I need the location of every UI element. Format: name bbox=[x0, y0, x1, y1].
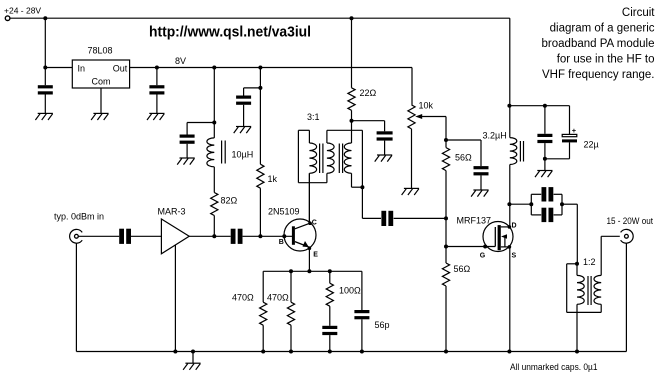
svg-text:10µH: 10µH bbox=[232, 150, 254, 160]
svg-text:22µ: 22µ bbox=[584, 140, 599, 150]
svg-text:1k: 1k bbox=[268, 174, 278, 184]
svg-text:D: D bbox=[512, 223, 517, 230]
svg-text:8V: 8V bbox=[175, 56, 186, 66]
svg-text:Com: Com bbox=[92, 77, 111, 87]
svg-text:15 - 20W out: 15 - 20W out bbox=[607, 216, 654, 226]
svg-text:3:1: 3:1 bbox=[307, 112, 320, 122]
svg-text:MRF137: MRF137 bbox=[457, 216, 492, 226]
svg-text:22Ω: 22Ω bbox=[360, 88, 377, 98]
svg-text:470Ω: 470Ω bbox=[267, 293, 289, 303]
svg-text:All unmarked caps. 0µ1: All unmarked caps. 0µ1 bbox=[510, 362, 598, 372]
svg-text:470Ω: 470Ω bbox=[232, 293, 254, 303]
svg-text:typ. 0dBm in: typ. 0dBm in bbox=[54, 212, 104, 222]
svg-text:In: In bbox=[78, 64, 86, 74]
svg-text:78L08: 78L08 bbox=[88, 46, 113, 56]
svg-text:Out: Out bbox=[113, 64, 128, 74]
svg-text:56p: 56p bbox=[375, 320, 390, 330]
svg-text:82Ω: 82Ω bbox=[221, 195, 238, 205]
svg-text:56Ω: 56Ω bbox=[455, 153, 472, 163]
svg-text:B: B bbox=[279, 239, 284, 246]
svg-text:+24 - 28V: +24 - 28V bbox=[4, 6, 41, 16]
svg-text:http://www.qsl.net/va3iul: http://www.qsl.net/va3iul bbox=[149, 25, 311, 41]
svg-text:E: E bbox=[313, 252, 318, 259]
svg-text:broadband PA module: broadband PA module bbox=[542, 38, 655, 50]
svg-text:C: C bbox=[312, 219, 317, 226]
svg-text:for use in the HF to: for use in the HF to bbox=[557, 54, 655, 66]
svg-text:MAR-3: MAR-3 bbox=[158, 206, 186, 216]
svg-text:G: G bbox=[480, 253, 486, 260]
svg-text:10k: 10k bbox=[419, 101, 434, 111]
svg-text:Circuit: Circuit bbox=[622, 7, 655, 19]
svg-text:3.2µH: 3.2µH bbox=[483, 130, 507, 140]
svg-text:diagram of a generic: diagram of a generic bbox=[550, 23, 655, 35]
svg-text:S: S bbox=[512, 253, 517, 260]
svg-text:100Ω: 100Ω bbox=[339, 285, 361, 295]
svg-text:VHF frequency range.: VHF frequency range. bbox=[542, 69, 655, 81]
svg-text:2N5109: 2N5109 bbox=[268, 206, 300, 216]
svg-text:1:2: 1:2 bbox=[583, 257, 596, 267]
svg-text:+: + bbox=[572, 126, 577, 135]
svg-text:56Ω: 56Ω bbox=[454, 264, 471, 274]
